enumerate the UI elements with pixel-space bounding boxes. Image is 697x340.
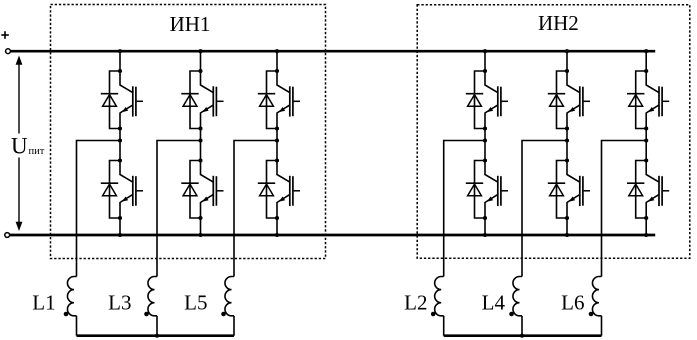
wire D12 branch (diode leg of Q12 cell) [636, 161, 647, 219]
transistor Q2 (IGBT) [120, 161, 143, 219]
node phase output L6 [644, 138, 648, 142]
inductor L2 [435, 277, 444, 316]
inductor L1 [67, 277, 76, 316]
wire L5 to neutral bus [233, 316, 235, 336]
node +rail / leg L1 [118, 49, 122, 53]
node Q5 collector junction [275, 69, 279, 73]
inverter block ИН1 (dashed outline) [51, 5, 326, 259]
node -rail / leg L1 [118, 233, 122, 237]
winding-start dot L2 [431, 312, 436, 317]
transistor Q4 (IGBT) [201, 161, 224, 219]
diode D3 (freewheeling, cathode up) [181, 94, 198, 107]
node Q3 collector junction [198, 69, 202, 73]
svg-text:L1: L1 [32, 291, 55, 315]
node -rail / leg L4 [565, 233, 569, 237]
wire D8 branch (diode leg of Q8 cell) [475, 161, 486, 219]
wire D3 branch (diode leg of Q3 cell) [190, 71, 201, 129]
node Q4 collector junction [198, 158, 202, 162]
node Q6 collector junction [275, 158, 279, 162]
node Q11 emitter junction [644, 126, 648, 130]
diode D8 (freewheeling, cathode up) [466, 183, 483, 196]
node Q3 emitter junction [198, 126, 202, 130]
wire phase L3: from midpoint left and down to inductor [157, 141, 201, 277]
diode D4 (freewheeling, cathode up) [181, 183, 198, 196]
node Q7 collector junction [483, 69, 487, 73]
wire leg L1 top: +rail to Q1 cell [119, 51, 121, 71]
wire D11 branch (diode leg of Q11 cell) [636, 71, 647, 129]
wire L6 to neutral bus [601, 316, 603, 336]
node Q7 emitter junction [483, 126, 487, 130]
wire L4 to neutral bus [521, 316, 523, 336]
wire Q8 emitter to -rail [484, 218, 486, 235]
transistor Q3 (IGBT) [201, 71, 224, 129]
wire D10 branch (diode leg of Q10 cell) [557, 161, 568, 219]
terminal - (negative input) [5, 233, 10, 238]
wire phase L2: from midpoint left and down to inductor [444, 141, 485, 277]
wire Q3 emitter to phase node L3 [200, 129, 202, 141]
node phase output L5 [275, 138, 279, 142]
svg-text:ИН2: ИН2 [538, 11, 579, 35]
label + polarity [1, 31, 9, 39]
wire phase L4: from midpoint left and down to inductor [522, 141, 567, 277]
diode D9 (freewheeling, cathode up) [548, 94, 565, 107]
wire D6 branch (diode leg of Q6 cell) [267, 161, 278, 219]
diode D1 (freewheeling, cathode up) [101, 94, 118, 107]
node neutral ИН1 / L3 [155, 334, 159, 338]
node Q8 emitter junction [483, 216, 487, 220]
wire phase node to Q12 cell [645, 141, 647, 161]
node Q5 emitter junction [275, 126, 279, 130]
node -rail / leg L6 [644, 233, 648, 237]
wire L2 to neutral bus [443, 316, 445, 336]
wire leg L6 top: +rail to Q11 cell [645, 51, 647, 71]
transistor Q7 (IGBT) [485, 71, 508, 129]
wire D2 branch (diode leg of Q2 cell) [110, 161, 121, 219]
wire D5 branch (diode leg of Q5 cell) [267, 71, 278, 129]
node +rail / leg L6 [644, 49, 648, 53]
node +rail / leg L5 [275, 49, 279, 53]
wire leg L5 top: +rail to Q5 cell [276, 51, 278, 71]
inductor L6 [592, 277, 601, 316]
winding-start dot L1 [64, 312, 69, 317]
node +rail / leg L2 [483, 49, 487, 53]
wire L3 to neutral bus [156, 316, 158, 336]
node Q1 emitter junction [118, 126, 122, 130]
diode D7 (freewheeling, cathode up) [466, 94, 483, 107]
diode D6 (freewheeling, cathode up) [258, 183, 275, 196]
svg-text:пит: пит [29, 146, 45, 157]
wire phase node to Q4 cell [200, 141, 202, 161]
wire D1 branch (diode leg of Q1 cell) [110, 71, 121, 129]
winding-start dot L3 [144, 312, 149, 317]
node +rail / leg L4 [565, 49, 569, 53]
node Q4 emitter junction [198, 216, 202, 220]
wire leg L3 top: +rail to Q3 cell [200, 51, 202, 71]
transistor Q5 (IGBT) [277, 71, 300, 129]
node Q1 collector junction [118, 69, 122, 73]
node Q11 collector junction [644, 69, 648, 73]
diode D5 (freewheeling, cathode up) [258, 94, 275, 107]
transistor Q8 (IGBT) [485, 161, 508, 219]
transistor Q12 (IGBT) [646, 161, 669, 219]
node Q8 collector junction [483, 158, 487, 162]
measurement arrow Uпит (supply voltage span) [16, 56, 23, 232]
node Q10 emitter junction [565, 216, 569, 220]
wire phase L6: from midpoint left and down to inductor [602, 141, 647, 277]
node neutral ИН2 / L4 [520, 334, 524, 338]
wire leg L2 top: +rail to Q7 cell [484, 51, 486, 71]
svg-text:L4: L4 [482, 291, 506, 315]
terminal + (positive input) [6, 49, 11, 54]
transistor Q11 (IGBT) [646, 71, 669, 129]
node Q6 emitter junction [275, 216, 279, 220]
svg-text:L2: L2 [404, 291, 427, 315]
node Q9 collector junction [565, 69, 569, 73]
node Q12 collector junction [644, 158, 648, 162]
node Q12 emitter junction [644, 216, 648, 220]
diode D12 (freewheeling, cathode up) [627, 183, 644, 196]
wire Q4 emitter to -rail [200, 218, 202, 235]
node phase output L1 [118, 138, 122, 142]
wire Q11 emitter to phase node L6 [645, 129, 647, 141]
wire Q2 emitter to -rail [119, 218, 121, 235]
svg-text:L5: L5 [184, 291, 207, 315]
winding-start dot L6 [589, 312, 594, 317]
wire negative supply rail (bottom bus) [10, 234, 656, 237]
wire phase node to Q2 cell [119, 141, 121, 161]
wire Q12 emitter to -rail [645, 218, 647, 235]
inductor L4 [513, 277, 522, 316]
wire Q5 emitter to phase node L5 [276, 129, 278, 141]
wire phase L5: from midpoint left and down to inductor [234, 141, 277, 277]
node -rail / leg L2 [483, 233, 487, 237]
wire neutral bus of ИН2 (L2-L4-L6 star point) [444, 334, 602, 337]
node phase output L2 [483, 138, 487, 142]
wire phase node to Q6 cell [276, 141, 278, 161]
wire phase node to Q10 cell [566, 141, 568, 161]
node Q2 emitter junction [118, 216, 122, 220]
diode D11 (freewheeling, cathode up) [627, 94, 644, 107]
inductor L3 [148, 277, 157, 316]
wire Q6 emitter to -rail [276, 218, 278, 235]
wire phase L1: from midpoint left and down to inductor [77, 141, 121, 277]
wire D9 branch (diode leg of Q9 cell) [557, 71, 568, 129]
wire D7 branch (diode leg of Q7 cell) [475, 71, 486, 129]
wire Q10 emitter to -rail [566, 218, 568, 235]
node phase output L3 [198, 138, 202, 142]
inductor L5 [225, 277, 234, 316]
node Q2 collector junction [118, 158, 122, 162]
wire leg L4 top: +rail to Q9 cell [566, 51, 568, 71]
wire D4 branch (diode leg of Q4 cell) [190, 161, 201, 219]
diode D2 (freewheeling, cathode up) [101, 183, 118, 196]
svg-text:ИН1: ИН1 [170, 12, 211, 36]
transistor Q9 (IGBT) [567, 71, 590, 129]
node -rail / leg L3 [198, 233, 202, 237]
wire L1 to neutral bus [76, 316, 78, 336]
inverter block ИН2 (dashed outline) [417, 5, 690, 258]
wire Q9 emitter to phase node L4 [566, 129, 568, 141]
winding-start dot L5 [221, 312, 226, 317]
node phase output L4 [565, 138, 569, 142]
node +rail / leg L3 [198, 49, 202, 53]
wire phase node to Q8 cell [484, 141, 486, 161]
wire Q7 emitter to phase node L2 [484, 129, 486, 141]
transistor Q10 (IGBT) [567, 161, 590, 219]
winding-start dot L4 [509, 312, 514, 317]
node Q9 emitter junction [565, 126, 569, 130]
node Q10 collector junction [565, 158, 569, 162]
wire neutral bus of ИН1 (L1-L3-L5 star point) [77, 334, 235, 337]
wire Q1 emitter to phase node L1 [119, 129, 121, 141]
wire positive supply rail (top bus) [11, 50, 656, 53]
svg-text:U: U [11, 134, 28, 159]
transistor Q1 (IGBT) [120, 71, 143, 129]
transistor Q6 (IGBT) [277, 161, 300, 219]
svg-text:L6: L6 [561, 291, 584, 315]
diode D10 (freewheeling, cathode up) [548, 183, 565, 196]
svg-text:L3: L3 [108, 291, 131, 315]
node -rail / leg L5 [275, 233, 279, 237]
